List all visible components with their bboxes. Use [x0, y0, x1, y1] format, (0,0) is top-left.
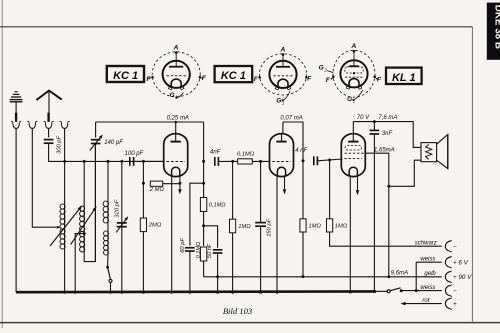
- tube V1 KC1: [164, 134, 188, 177]
- svg-text:320 pF: 320 pF: [115, 199, 121, 218]
- switch S2 contact: [387, 290, 390, 293]
- wire 2Mv to bus: [142, 232, 144, 293]
- coil L3 upper: [107, 201, 109, 223]
- box label KC 1 (second): [215, 66, 253, 82]
- node bus end: [373, 290, 376, 293]
- svg-text:+ 90 V: + 90 V: [453, 274, 472, 281]
- coil L3 top wire: [107, 161, 109, 201]
- wire 1M mid: [232, 161, 234, 219]
- wire V2 fil left to bus: [276, 177, 278, 293]
- node coil3 top: [107, 160, 110, 163]
- wire 3nF down to bus end: [373, 134, 375, 291]
- wire 100pF to tube1 grid: [134, 160, 164, 162]
- svg-text:1,65mA: 1,65mA: [374, 147, 395, 153]
- terminal schwarz: [445, 241, 450, 251]
- wire fork4 down: [64, 129, 66, 162]
- node screen HT rail: [387, 275, 390, 278]
- svg-text:KL 1: KL 1: [392, 72, 416, 84]
- coil L3 lower: [107, 231, 109, 255]
- box label KC 1 (first): [107, 66, 144, 82]
- wire gridleak drop: [142, 161, 144, 218]
- node 150pF top: [259, 160, 262, 163]
- switch S1 lever: [108, 267, 111, 279]
- wire V3 screen out: [365, 153, 389, 186]
- wire screen col to HT rail: [388, 186, 390, 276]
- wire 0,1M to tube2 grid: [252, 160, 269, 162]
- wire grid rail: [65, 160, 164, 162]
- svg-text:0,1MΩ: 0,1MΩ: [237, 152, 255, 158]
- tube socket diagram KL1 (U3 base): [333, 50, 375, 97]
- svg-text:weiss: weiss: [420, 285, 435, 291]
- svg-text:60 pF: 60 pF: [180, 238, 186, 253]
- node 50nF HT rail: [216, 275, 219, 278]
- svg-text:140 pF: 140 pF: [104, 140, 123, 146]
- wire anode line 3: [353, 122, 421, 148]
- wire HT rail (+90V gelb): [204, 276, 442, 278]
- wire 4nF to 0,1M: [218, 160, 237, 162]
- node 1M mid top: [231, 160, 234, 163]
- coil L3 middle wire: [107, 223, 109, 231]
- terminal weiss 2: [445, 285, 450, 295]
- resistor 1M mid: [230, 219, 236, 233]
- bottom rule: [0, 322, 500, 324]
- node tap bus: [74, 291, 77, 294]
- wire weiss2: [401, 290, 442, 292]
- wire V3 anode up: [352, 122, 354, 134]
- svg-text:50 nF: 50 nF: [207, 243, 213, 258]
- svg-text:Bild 103: Bild 103: [223, 306, 252, 316]
- wire L3 to switch: [107, 255, 109, 267]
- node 60pF branch: [202, 182, 205, 185]
- svg-text:4 nF: 4 nF: [295, 148, 307, 154]
- page left edge: [1, 0, 3, 328]
- switch S2 wire: [374, 290, 387, 292]
- wire V1 fil right arrow: [179, 177, 181, 190]
- ground symbol: [14, 91, 17, 93]
- node S1 bus: [109, 291, 112, 294]
- variometer arrow L2: [71, 209, 95, 244]
- wire 300pF to grid rail: [49, 143, 65, 161]
- capacitor 320pF trimmer: [117, 222, 127, 224]
- wire V3 fil left to bus: [349, 177, 351, 292]
- node fork4 / grid rail: [63, 160, 66, 163]
- node 50nF branch: [202, 224, 205, 227]
- svg-text:−: −: [453, 288, 457, 295]
- svg-text:KC 1: KC 1: [221, 70, 246, 82]
- wire 2Mh to filament: [163, 183, 180, 185]
- node L2 tap: [83, 232, 86, 235]
- node S2 right: [400, 289, 403, 292]
- node 150pF bus: [259, 291, 262, 294]
- svg-text:G: G: [319, 65, 324, 72]
- svg-text:weiss: weiss: [420, 256, 435, 262]
- capacitor 4nF coupling: [214, 157, 216, 166]
- svg-text:7,6 mA: 7,6 mA: [378, 115, 397, 121]
- svg-text:1MΩ: 1MΩ: [335, 224, 348, 230]
- tube V3 KL1: [341, 134, 365, 177]
- wire 60pF to bus: [189, 251, 191, 292]
- node 60pF bus: [188, 291, 191, 294]
- wire V2 anode up: [282, 122, 284, 134]
- wire anode line 2: [283, 122, 303, 161]
- wire anode line 1 down: [203, 122, 205, 198]
- svg-text:gelb: gelb: [424, 271, 436, 277]
- wire S1 to bus: [110, 282, 112, 292]
- svg-text:−: −: [453, 244, 457, 251]
- svg-text:9,6mA: 9,6mA: [391, 271, 408, 277]
- capacitor 150pF: [255, 222, 266, 224]
- capacitor 300pF: [44, 139, 54, 141]
- node V3 fil bus: [349, 291, 352, 294]
- node filament right pin: [178, 182, 181, 185]
- svg-text:0,07 mA: 0,07 mA: [280, 115, 302, 121]
- node V2 anode junction: [302, 159, 305, 162]
- tube V2 KC1: [270, 134, 294, 177]
- wire 50nF down: [217, 253, 219, 292]
- node coil2 top: [83, 160, 86, 163]
- wire 4nF2 to V3 grid: [317, 159, 342, 161]
- resistor 2M horizontal: [150, 181, 162, 186]
- socket fork 4: [61, 122, 67, 128]
- wire earth lead to bus: [15, 129, 17, 293]
- wire rot with arrow: [405, 303, 442, 305]
- top rule: [0, 26, 472, 28]
- resistor 1M grid leak V3: [327, 219, 333, 232]
- svg-text:+: +: [453, 301, 457, 308]
- speaker transformer box: [421, 143, 437, 162]
- wire 1M gl top: [329, 160, 331, 219]
- node 1M mid bus: [231, 291, 234, 294]
- node 2Mv bus: [142, 291, 145, 294]
- node L1 bus: [63, 291, 66, 294]
- svg-text:A: A: [279, 47, 285, 54]
- socket fork 1: [13, 122, 19, 128]
- svg-text:0,1MΩ: 0,1MΩ: [196, 241, 202, 258]
- capacitor 60pF: [185, 247, 195, 249]
- svg-text:+ 6 V: + 6 V: [453, 260, 469, 267]
- svg-text:0,1MΩ: 0,1MΩ: [209, 203, 226, 209]
- node weiss2 vertical: [415, 289, 418, 292]
- wire between 0,1M resistors: [203, 212, 205, 247]
- switch S2 lever: [390, 288, 401, 291]
- capacitor 50nF: [213, 249, 223, 251]
- tube socket diagram KC1 #1 (U1 base): [152, 52, 200, 97]
- wire weiss1: [416, 261, 442, 263]
- wire 60pF branch: [190, 183, 204, 245]
- node coupling junction: [202, 160, 205, 163]
- svg-text:2 MΩ: 2 MΩ: [149, 187, 165, 193]
- capacitor 140pF variable: [91, 139, 101, 141]
- svg-text:1MΩ: 1MΩ: [238, 224, 251, 230]
- DKE 38 B tab: [487, 3, 500, 60]
- plug on antenna lead: [47, 113, 49, 122]
- node speaker return: [387, 185, 390, 188]
- svg-text:0,25 mA: 0,25 mA: [167, 115, 189, 121]
- coil L2: [83, 161, 85, 206]
- wire 320pF column: [121, 161, 123, 292]
- terminal rot: [445, 298, 450, 308]
- socket fork 3: [45, 122, 51, 128]
- wire 1M gl to schwarz: [330, 232, 442, 246]
- right frame rule: [471, 27, 473, 322]
- svg-text:4nF: 4nF: [210, 150, 221, 156]
- svg-text:150 pF: 150 pF: [267, 218, 273, 237]
- speaker cone: [437, 134, 448, 168]
- wire L2 tap to bus: [75, 234, 84, 293]
- node gridleak top: [142, 160, 145, 163]
- node 320pF top: [120, 160, 123, 163]
- svg-text:300 pF: 300 pF: [56, 135, 62, 154]
- svg-text:G: G: [347, 96, 352, 103]
- terminal gelb +90V: [445, 272, 450, 282]
- resistor 0,1M decoupling 2: [200, 247, 206, 261]
- tube socket diagram KC1 #2 (U2 base): [259, 54, 306, 95]
- wire 140pF down (crosses grid rail): [95, 144, 97, 147]
- terminal weiss +6V: [445, 257, 450, 267]
- wire V1 anode up: [175, 122, 177, 134]
- svg-text:G: G: [276, 98, 281, 105]
- capacitor 100pF: [129, 157, 131, 166]
- node 320pF bus: [120, 291, 123, 294]
- trimmer arrow 320pF: [116, 218, 126, 232]
- node V2 fil bus: [276, 291, 279, 294]
- svg-text:A: A: [173, 45, 179, 52]
- node V1 fil bus: [170, 291, 173, 294]
- wire fork3 down to 300pF: [48, 129, 50, 138]
- wire anode line 1 left corner: [95, 122, 97, 138]
- svg-text:3nF: 3nF: [382, 131, 393, 137]
- wire V1 fil left to bus: [171, 177, 173, 293]
- switch S1 contact: [109, 279, 112, 282]
- wire anode line 1: [96, 121, 204, 123]
- node gridleak junction: [142, 182, 145, 185]
- socket fork 2: [29, 122, 35, 128]
- variometer arrow L1: [50, 209, 80, 246]
- svg-text:70 V: 70 V: [357, 115, 370, 121]
- svg-text:DKE 38 B: DKE 38 B: [493, 5, 500, 49]
- wire 50nF branch: [204, 226, 218, 248]
- svg-text:1MΩ: 1MΩ: [308, 224, 321, 230]
- node 1M load HT rail: [302, 275, 305, 278]
- node V1 anode: [174, 121, 177, 124]
- capacitor 4nF coupling 2: [313, 156, 315, 165]
- wire weiss vertical: [415, 262, 417, 290]
- svg-text:schwarz: schwarz: [415, 241, 437, 247]
- wire 1M load bottom: [302, 232, 304, 277]
- svg-text:2: 2: [323, 67, 327, 72]
- trimmer arrow 140pF: [90, 136, 101, 150]
- svg-text:KC 1: KC 1: [113, 70, 138, 82]
- svg-text:2MΩ: 2MΩ: [148, 223, 162, 229]
- node 50nF bus: [216, 291, 219, 294]
- wire L2 bottom U: [84, 146, 95, 262]
- svg-text:G: G: [170, 92, 175, 99]
- node 1M V3 grid top: [328, 159, 331, 162]
- svg-text:A: A: [350, 43, 356, 50]
- switch S1 pivot: [106, 266, 109, 269]
- resistor 0,1M coupling: [238, 159, 253, 164]
- box label KL 1: [386, 68, 422, 84]
- wire V3 fil right arrow: [357, 177, 359, 190]
- wire fork2 down: [32, 129, 56, 228]
- resistor 1M anode load: [300, 219, 306, 232]
- wire 0,1M dec2 to HT rail: [203, 261, 205, 277]
- resistor 2M vertical: [140, 218, 146, 232]
- capacitor 3nF: [370, 129, 380, 131]
- bus wire (chassis): [16, 290, 374, 293]
- svg-text:100 pF: 100 pF: [125, 151, 144, 157]
- node 3nF top: [373, 120, 376, 123]
- wire 150pF column: [260, 161, 262, 222]
- plug on earth lead: [15, 113, 17, 122]
- speaker coil zigzag: [426, 144, 432, 159]
- wire speaker return: [389, 160, 421, 186]
- wire 1M load top: [302, 161, 304, 219]
- resistor 0,1M decoupling 1: [200, 198, 206, 212]
- coil L1 antenna: [64, 161, 66, 204]
- wire V2 fil right arrow: [284, 177, 286, 190]
- antenna symbol: [36, 91, 61, 100]
